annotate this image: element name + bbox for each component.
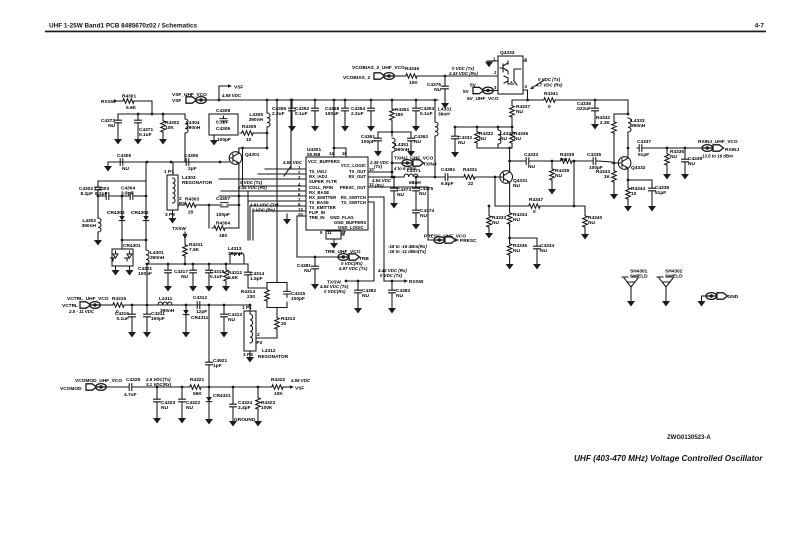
wire (510, 160, 524, 162)
capacitor C4335 (591, 158, 598, 165)
svg-text:NU: NU (396, 293, 403, 299)
wire (434, 136, 436, 177)
wire (172, 210, 174, 218)
svg-text:13.5 to 16 dBm: 13.5 to 16 dBm (702, 154, 733, 159)
svg-text:CR4311: CR4311 (191, 315, 209, 321)
svg-text:51pF: 51pF (638, 152, 649, 158)
wire pin8 (250, 205, 306, 207)
connector flag PRESC_UHF_VCO (434, 237, 456, 244)
svg-text:1 P1: 1 P1 (164, 169, 174, 175)
resistor R4347 (527, 204, 542, 209)
wire (357, 281, 359, 288)
wire (314, 257, 316, 264)
capacitor C4313 (221, 312, 228, 319)
svg-text:8.2pF: 8.2pF (95, 191, 108, 197)
wire pin3 (219, 178, 306, 180)
resistor R4343 (612, 169, 617, 184)
capacitor C4374 (413, 208, 420, 215)
wire (184, 256, 186, 264)
wire (454, 141, 456, 152)
svg-text:CR4302: CR4302 (131, 210, 149, 216)
svg-text:VCOBIAS_2_UHF_VCO: VCOBIAS_2_UHF_VCO (352, 65, 405, 71)
wire (494, 177, 496, 206)
svg-text:100pF: 100pF (217, 137, 231, 143)
wire (100, 304, 111, 306)
wire (213, 135, 215, 140)
svg-text:390nH: 390nH (186, 125, 201, 131)
wire (192, 275, 194, 286)
svg-text:4.58 VDC: 4.58 VDC (221, 93, 242, 98)
capacitor C4322 (179, 397, 186, 404)
svg-text:(Rx): (Rx) (375, 183, 384, 188)
wire (98, 180, 146, 182)
svg-text:Q4301: Q4301 (245, 152, 260, 158)
wire (444, 76, 446, 84)
svg-text:20: 20 (298, 212, 303, 217)
svg-text:8.2pF: 8.2pF (80, 191, 93, 197)
ground (288, 126, 296, 132)
svg-text:RXSW: RXSW (409, 279, 424, 285)
connector flag VCTRL_UHF_VCO (80, 302, 100, 309)
ground (178, 418, 186, 424)
resistor R4351 (390, 107, 395, 122)
wire (394, 75, 404, 77)
connector flag TXINJ_UHF_VCO (402, 160, 424, 167)
svg-text:2: 2 (257, 332, 260, 338)
ground (698, 301, 706, 307)
wire (344, 113, 346, 126)
capacitor C4314 (245, 270, 252, 277)
resistor R4338 (550, 167, 555, 182)
wire (598, 161, 612, 162)
wire (184, 238, 186, 243)
svg-text:5V_UHF_VCO: 5V_UHF_VCO (467, 96, 499, 102)
svg-text:TRB_IN: TRB_IN (309, 215, 325, 220)
inductor L4304 (185, 119, 188, 133)
capacitor C4337 (637, 145, 644, 152)
svg-text:39nH: 39nH (438, 112, 450, 118)
resonator L4312 (244, 311, 256, 351)
capacitor C4307 (221, 203, 229, 207)
wire (477, 147, 512, 149)
inductor L4371 (404, 174, 418, 177)
svg-text:NU: NU (514, 136, 521, 142)
svg-text:NU: NU (513, 217, 520, 223)
wire (343, 230, 345, 235)
wire (97, 181, 99, 185)
wire (196, 204, 209, 206)
svg-text:RX_OUT: RX_OUT (349, 174, 367, 179)
svg-text:56K: 56K (193, 391, 202, 397)
svg-text:NU: NU (419, 191, 426, 197)
capacitor C4382 (355, 288, 362, 295)
wire (666, 148, 668, 152)
svg-text:0 VDC(Rx): 0 VDC(Rx) (324, 289, 346, 294)
ground (254, 421, 262, 427)
wire pin6 (219, 195, 306, 197)
resistor R4340 (583, 214, 588, 229)
svg-text:TRB_UHF_VCO: TRB_UHF_VCO (325, 249, 361, 255)
wire (613, 163, 615, 169)
wire pin5 (221, 190, 306, 192)
svg-text:RXINJ: RXINJ (725, 147, 739, 153)
wire (584, 206, 586, 214)
wire (488, 227, 490, 233)
wire (391, 281, 393, 288)
wire (497, 144, 499, 148)
resistor R4332 (475, 130, 480, 145)
wire (121, 196, 123, 216)
wire (377, 132, 379, 136)
svg-text:5V: 5V (463, 89, 470, 95)
svg-text:100pF: 100pF (291, 296, 305, 302)
wire (330, 230, 332, 231)
svg-text:GND: GND (728, 294, 739, 300)
svg-text:L4311: L4311 (159, 296, 173, 302)
arrow (183, 232, 187, 238)
svg-text:390nH: 390nH (82, 223, 97, 229)
connector flag VCOMOD_UHF_VCO (86, 384, 106, 391)
svg-text:3 P3: 3 P3 (165, 212, 175, 218)
TRB wire (296, 216, 298, 257)
svg-text:0.1uF: 0.1uF (210, 274, 223, 280)
capacitor C4306 (184, 159, 191, 166)
svg-text:NU: NU (555, 173, 562, 179)
ground (220, 332, 228, 338)
capacitor C4371 (135, 118, 142, 125)
capacitor C4312 (195, 302, 202, 309)
wire (192, 264, 194, 268)
wire (536, 251, 538, 264)
svg-text:C4337: C4337 (637, 139, 651, 145)
svg-text:2.4pF: 2.4pF (238, 405, 251, 411)
wire (225, 227, 239, 229)
wire (628, 179, 652, 181)
wire (257, 409, 259, 421)
wire (555, 99, 628, 101)
ground (104, 166, 112, 172)
svg-text:RESONATOR: RESONATOR (258, 354, 289, 360)
capacitor C4358 (342, 106, 349, 113)
svg-text:R4303: R4303 (185, 197, 199, 203)
wire (511, 127, 513, 130)
junction (162, 113, 165, 116)
svg-text:NU: NU (186, 405, 193, 411)
svg-text:R4305: R4305 (242, 124, 256, 130)
ground (311, 284, 319, 290)
wire (256, 329, 277, 338)
svg-text:5.6K: 5.6K (228, 275, 239, 281)
IC Q4333 (498, 56, 523, 94)
wire (257, 387, 259, 396)
wire (495, 205, 527, 207)
capacitor C4921 (206, 360, 213, 367)
ground (681, 174, 689, 180)
ground (610, 194, 618, 200)
wire (145, 181, 147, 196)
svg-text:VCOMOD: VCOMOD (60, 386, 82, 392)
wire (511, 100, 513, 104)
svg-text:0.1uF: 0.1uF (420, 111, 433, 117)
wire (627, 100, 629, 114)
svg-text:NU: NU (161, 405, 168, 411)
ground (624, 206, 632, 212)
wire (134, 101, 152, 114)
collector wire (509, 148, 511, 169)
diode CR4321 (206, 396, 212, 404)
capacitor C4353 (413, 106, 420, 113)
svg-text:SUPER_FLTR: SUPER_FLTR (309, 179, 338, 184)
capacitor C4305 (118, 159, 125, 166)
wire (146, 305, 148, 312)
diode CR4303 (119, 215, 125, 223)
wire (523, 60, 527, 62)
wire (249, 305, 251, 313)
wire (417, 75, 498, 77)
wire (370, 113, 372, 126)
wire (540, 205, 585, 207)
ground (311, 126, 319, 132)
svg-text:390nH: 390nH (631, 123, 646, 129)
wire (333, 100, 335, 157)
svg-text:NU: NU (458, 140, 465, 146)
wire (344, 100, 346, 106)
svg-text:R4301: R4301 (122, 94, 136, 100)
svg-text:NU: NU (362, 293, 369, 299)
wire (684, 148, 686, 157)
wire (146, 319, 148, 332)
svg-text:NU: NU (414, 139, 421, 145)
resistor R4341 (542, 98, 557, 103)
rail (455, 126, 513, 128)
capacitor C4303 (104, 193, 111, 200)
TX_OUT wire (368, 171, 392, 173)
resistor R4323 (256, 396, 261, 411)
svg-text:100K: 100K (261, 405, 273, 411)
svg-text:4-7: 4-7 (755, 23, 765, 30)
wire (247, 191, 249, 240)
ground (506, 264, 514, 270)
ground (222, 286, 230, 292)
svg-text:10K: 10K (165, 125, 174, 131)
svg-text:0.1uF: 0.1uF (295, 111, 308, 117)
wire (551, 161, 553, 167)
wire pin2 (258, 173, 306, 175)
svg-text:PRESC_OUT: PRESC_OUT (340, 185, 367, 190)
wire pin4 (523, 90, 528, 100)
svg-text:VSF_UHF_VCO: VSF_UHF_VCO (172, 92, 207, 98)
svg-text:CR4303: CR4303 (107, 210, 125, 216)
capacitor C4354 (368, 106, 375, 113)
wire (488, 206, 490, 214)
header rule (45, 31, 766, 33)
ground (533, 264, 541, 270)
resistor R4312 (224, 268, 229, 283)
svg-text:6.8pF: 6.8pF (441, 181, 454, 187)
wire (511, 143, 513, 148)
wire (225, 264, 227, 268)
wire (613, 114, 615, 120)
ground (485, 62, 493, 68)
ground (412, 224, 420, 230)
capacitor C4301 (165, 268, 172, 275)
wire (393, 193, 395, 203)
wire (418, 176, 443, 178)
wire (476, 143, 478, 148)
wire (227, 204, 239, 206)
ground (112, 270, 120, 276)
wire (145, 222, 147, 249)
svg-text:100pF: 100pF (361, 139, 375, 145)
wire (392, 162, 402, 164)
resistor R4336b (507, 242, 512, 257)
wire (434, 100, 436, 122)
wire (172, 304, 195, 306)
wire (415, 215, 417, 224)
ground (441, 103, 449, 109)
wire (450, 176, 462, 178)
wire (476, 127, 478, 130)
ground (663, 174, 671, 180)
ground (341, 126, 349, 132)
svg-text:NU: NU (492, 220, 499, 226)
diode CR4302 (143, 215, 149, 223)
long wire to R4314 network (276, 100, 278, 282)
wire (223, 319, 225, 332)
capacitor C4324 (230, 402, 237, 409)
wire pin10 (297, 215, 306, 217)
svg-text:0 VDC (Tx): 0 VDC (Tx) (380, 273, 403, 278)
wire (651, 193, 653, 206)
wire (232, 387, 234, 402)
svg-text:UHF (403-470 MHz) Voltage Cont: UHF (403-470 MHz) Voltage Controlled Osc… (574, 454, 763, 463)
svg-text:14: 14 (329, 151, 334, 156)
svg-text:.022uF: .022uF (576, 106, 591, 112)
wire (333, 239, 335, 243)
capacitor C4332 (452, 134, 459, 141)
svg-text:R4347: R4347 (529, 197, 543, 203)
svg-text:C4305: C4305 (117, 153, 131, 159)
svg-text:R4331: R4331 (463, 167, 477, 173)
inductor L4332 (498, 130, 501, 144)
svg-text:10: 10 (246, 137, 252, 143)
wire (314, 100, 316, 106)
main VCC rail (205, 99, 438, 101)
svg-text:0.1uF: 0.1uF (139, 132, 152, 138)
ground (182, 332, 190, 338)
ground (330, 243, 338, 249)
svg-text:0: 0 (533, 209, 536, 215)
svg-text:NU: NU (513, 248, 520, 254)
wire (117, 114, 119, 118)
ground (662, 301, 670, 307)
network R4314 C4315 frame (267, 283, 287, 308)
wire pin1 (265, 168, 306, 170)
svg-text:TXINJ_UHF_VCO: TXINJ_UHF_VCO (394, 156, 433, 162)
wire (286, 214, 288, 219)
svg-text:VCOBIAS_2: VCOBIAS_2 (343, 75, 371, 81)
TRB wire (297, 256, 338, 258)
resistor R4337 (510, 104, 515, 119)
wire (208, 367, 210, 387)
wire (370, 100, 372, 106)
wire (584, 227, 586, 234)
svg-text:51pF: 51pF (655, 190, 666, 196)
svg-text:GROUND: GROUND (234, 417, 256, 423)
resistor R4313 (275, 316, 280, 331)
capacitor C4352 (312, 106, 319, 113)
svg-text:0: 0 (548, 104, 551, 110)
wire (162, 114, 164, 119)
wire (178, 204, 183, 206)
capacitor C4304 (128, 193, 135, 200)
svg-text:100pF: 100pF (151, 316, 165, 322)
svg-text:NU: NU (228, 317, 235, 323)
wire to IC bias pins (290, 100, 292, 169)
wire (630, 287, 632, 301)
svg-text:-18 to -11 dBm(Tx): -18 to -11 dBm(Tx) (388, 249, 427, 254)
ground (548, 189, 556, 195)
inductor L4305 (267, 113, 270, 127)
wire (454, 127, 456, 134)
svg-text:4.58 VDC: 4.58 VDC (282, 160, 303, 165)
wire (122, 239, 146, 241)
capacitor C4372 (115, 118, 122, 125)
wire (242, 148, 244, 186)
svg-text:10K: 10K (274, 391, 283, 397)
ground (591, 124, 599, 130)
svg-text:UHF 1-25W Band1 PCB 8485670z02: UHF 1-25W Band1 PCB 8485670z02 / Schemat… (49, 23, 198, 30)
svg-text:NU: NU (304, 268, 311, 274)
wire (118, 113, 185, 115)
ground (94, 240, 102, 246)
wire (107, 162, 109, 166)
wire (614, 113, 628, 115)
resistor R4321 (188, 385, 203, 390)
ground (153, 418, 161, 424)
connector flag 5V_UHF_VCO (473, 87, 493, 94)
wire (613, 182, 615, 194)
svg-text:100pF: 100pF (216, 212, 230, 218)
wire (253, 132, 267, 134)
wire (335, 230, 337, 231)
svg-text:VCC_LOGIC: VCC_LOGIC (341, 163, 366, 168)
svg-text:12pF: 12pF (196, 309, 207, 315)
leader line (284, 166, 291, 176)
wire (97, 232, 99, 240)
wire (167, 264, 169, 268)
wire (229, 256, 231, 264)
wire (357, 295, 359, 308)
wire (98, 195, 104, 197)
wire (283, 386, 290, 388)
ground (143, 332, 151, 338)
wire (223, 305, 225, 312)
svg-text:CR4301: CR4301 (123, 243, 141, 249)
wire (341, 234, 344, 236)
wire (137, 114, 139, 118)
svg-text:0.1uF: 0.1uF (116, 316, 129, 322)
svg-text:C4308: C4308 (216, 108, 230, 114)
wire (146, 264, 148, 305)
svg-text:P2: P2 (257, 340, 263, 346)
svg-text:ZWG0130523-A: ZWG0130523-A (667, 435, 711, 441)
inductor L4331 (435, 122, 438, 136)
ground (134, 139, 142, 145)
svg-text:20: 20 (281, 321, 287, 327)
svg-text:4.58 VDC: 4.58 VDC (290, 378, 311, 383)
capacitor C4323 (154, 397, 161, 404)
